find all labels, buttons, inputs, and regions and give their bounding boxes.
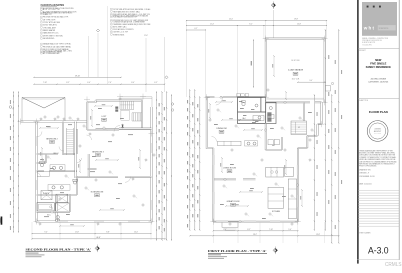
svg-text:22'-0": 22'-0" (229, 19, 233, 21)
svg-text:PROJECT: PROJECT (359, 50, 366, 52)
svg-text:5'-0": 5'-0" (288, 229, 292, 231)
svg-text:LICENSED: LICENSED (374, 129, 381, 131)
svg-text:interiors: interiors (379, 26, 389, 30)
svg-text:JOB NUMBER: 20-116: JOB NUMBER: 20-116 (359, 176, 374, 178)
svg-text:UP: UP (298, 127, 300, 129)
svg-text:GUTTER + D.S. TYP.: GUTTER + D.S. TYP. (113, 32, 128, 34)
svg-text:A-3.0: A-3.0 (368, 245, 389, 255)
svg-text:LOFT: LOFT (102, 116, 108, 118)
svg-text:16'-10" CLR.: 16'-10" CLR. (291, 60, 300, 62)
svg-text:SHOWER ENCL.: SHOWER ENCL. (43, 38, 56, 40)
svg-text:PRIOR TO PROCEEDING.: PRIOR TO PROCEEDING. (359, 166, 377, 168)
svg-text:DRYER VENT TO EXT. MIN.: DRYER VENT TO EXT. MIN. (43, 35, 63, 37)
svg-text:No. C-31542: No. C-31542 (374, 133, 381, 135)
svg-text:SECOND FLOOR PLAN - TYPE 'A': SECOND FLOOR PLAN - TYPE 'A' (26, 248, 92, 252)
svg-text:8'-2": 8'-2" (247, 229, 251, 231)
svg-text:BEDROOM 2: BEDROOM 2 (46, 138, 57, 140)
svg-text:19'-8": 19'-8" (294, 19, 298, 21)
svg-text:T. 626.456.7890: T. 626.456.7890 (362, 44, 372, 46)
svg-text:8'-8": 8'-8" (106, 232, 110, 234)
svg-text:FIVE SINGLE: FIVE SINGLE (370, 61, 386, 65)
svg-text:11'-8": 11'-8" (75, 232, 79, 234)
svg-text:46'-8": 46'-8" (96, 237, 101, 239)
svg-text:LIVING ROOM: LIVING ROOM (223, 168, 236, 170)
svg-text:7'-6": 7'-6" (108, 82, 112, 84)
svg-text:M. BEDROOM: M. BEDROOM (91, 192, 104, 194)
svg-text:2-CAR GARAGE: 2-CAR GARAGE (288, 69, 304, 72)
svg-text:6'-2": 6'-2" (154, 82, 158, 84)
svg-text:29'-10": 29'-10" (75, 76, 81, 78)
svg-text:DINING RM: DINING RM (216, 128, 227, 130)
svg-text:6'-4": 6'-4" (87, 82, 91, 84)
svg-text:KITCHEN: KITCHEN (272, 211, 281, 213)
svg-text:GREAT ROOM: GREAT ROOM (227, 200, 240, 203)
svg-text:7'-10": 7'-10" (43, 82, 47, 84)
svg-text:8'-2": 8'-2" (249, 24, 253, 26)
svg-text:NEW: NEW (375, 58, 382, 62)
svg-text:BEDROOM 3: BEDROOM 3 (92, 151, 103, 153)
svg-text:LA PUENTE, CA 91746: LA PUENTE, CA 91746 (368, 81, 388, 84)
svg-text:FLOOR PLAN: FLOOR PLAN (369, 110, 388, 114)
svg-text:200 WILLOW AVE: 200 WILLOW AVE (371, 78, 387, 81)
svg-text:7'-10": 7'-10" (269, 229, 273, 231)
svg-text:9'-4": 9'-4" (44, 232, 48, 234)
svg-text:5/8" TYPE X GYP.: 5/8" TYPE X GYP. (43, 19, 56, 21)
svg-text:13'-8": 13'-8" (316, 234, 320, 236)
svg-text:8'-4": 8'-4" (131, 82, 135, 84)
svg-text:10'-8": 10'-8" (297, 24, 301, 26)
svg-text:EGRESS WDW.: EGRESS WDW. (113, 34, 125, 36)
svg-text:SHEET NUMBER: SHEET NUMBER (359, 232, 370, 234)
svg-text:28'-2": 28'-2" (253, 234, 257, 236)
svg-text:10'-0": 10'-0" (134, 232, 138, 234)
svg-text:9'-0": 9'-0" (310, 80, 313, 82)
svg-text:7'-4": 7'-4" (223, 229, 227, 231)
svg-text:FAMILY RESIDENCE: FAMILY RESIDENCE (366, 65, 391, 69)
svg-text:11'-6": 11'-6" (144, 35, 148, 37)
svg-text:SHEET TITLE: SHEET TITLE (359, 100, 368, 102)
svg-text:8'-2": 8'-2" (66, 82, 70, 84)
svg-text:w h t: w h t (363, 25, 375, 30)
svg-text:CHECKED: JT: CHECKED: JT (359, 173, 369, 175)
svg-text:18'-2" CLR.: 18'-2" CLR. (292, 79, 300, 81)
svg-text:FIRST FLOOR PLAN - TYPE 'A': FIRST FLOOR PLAN - TYPE 'A' (208, 249, 267, 253)
svg-text:6'-2": 6'-2" (195, 28, 198, 30)
svg-text:11'-4": 11'-4" (210, 24, 214, 26)
svg-text:CRMLS: CRMLS (385, 262, 402, 268)
